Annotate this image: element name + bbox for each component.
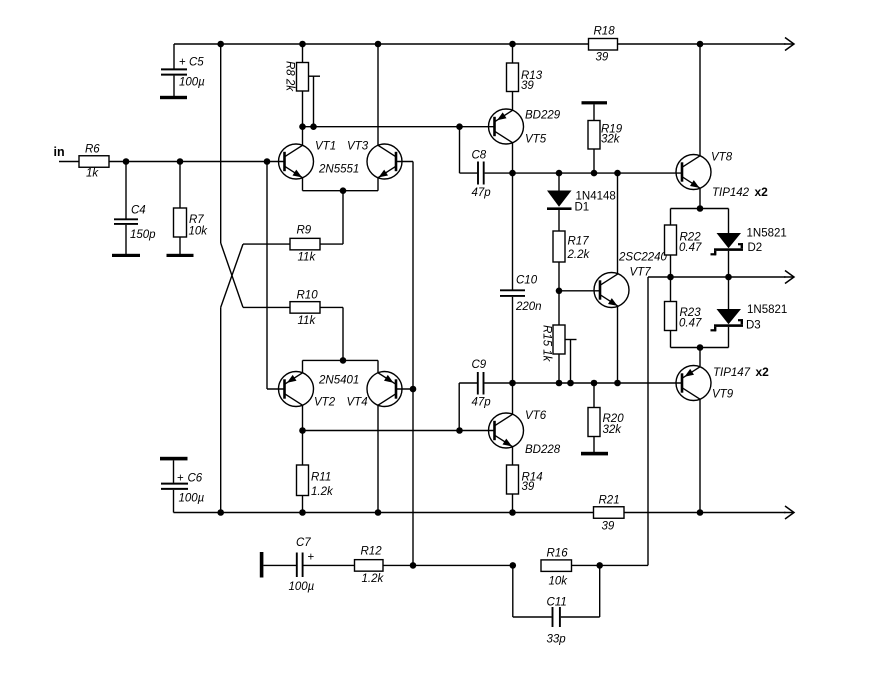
resistor R8 — [284, 44, 309, 127]
wire input line to VT1 base — [109, 161, 285, 163]
svg-text:VT1: VT1 — [315, 141, 336, 153]
node -V/R11 — [299, 509, 306, 516]
svg-text:1.2k: 1.2k — [311, 486, 334, 498]
wire VT6 bottom — [512, 447, 514, 466]
svg-text:39: 39 — [596, 52, 609, 64]
svg-text:11k: 11k — [298, 252, 317, 264]
svg-text:47p: 47p — [472, 397, 492, 409]
svg-text:1k: 1k — [86, 168, 99, 180]
resistor R12 — [355, 546, 513, 586]
capacitor C8 — [460, 127, 513, 199]
svg-text:32k: 32k — [601, 134, 621, 146]
resistor R17 — [553, 231, 590, 291]
node VT1/VT3 emitters — [340, 187, 347, 194]
node output/R22 — [667, 274, 674, 281]
node bias/VT7 emitter — [614, 380, 621, 387]
wire cross diagonal from R9 — [221, 244, 243, 307]
resistor R15 — [541, 291, 566, 383]
resistor R10 — [243, 290, 343, 328]
svg-text:BD228: BD228 — [525, 444, 561, 456]
svg-text:10k: 10k — [189, 226, 209, 238]
svg-text:D2: D2 — [748, 242, 763, 254]
transistor VT8 — [676, 152, 768, 200]
svg-text:C11: C11 — [547, 597, 567, 609]
node line173 / D1 — [556, 170, 563, 177]
wire VT8 collector — [699, 44, 701, 157]
wire VT2 base branch — [267, 162, 285, 390]
wire VT4 collector to -V — [377, 405, 379, 513]
ground R20 — [581, 452, 608, 456]
svg-text:C4: C4 — [131, 205, 146, 217]
wire R10 to VT2/VT4 emitters — [342, 307, 344, 360]
wire VT7 emitter — [617, 306, 619, 384]
svg-text:100µ: 100µ — [179, 77, 205, 89]
wire VT9 emitter — [699, 348, 701, 367]
svg-text:11k: 11k — [298, 315, 317, 327]
svg-text:C6: C6 — [188, 473, 203, 485]
wire VT1 collector — [302, 127, 304, 146]
wire +V top rail (right segment) — [618, 43, 786, 45]
resistor R13 — [507, 44, 543, 111]
svg-text:39: 39 — [602, 521, 615, 533]
svg-text:x2: x2 — [756, 365, 770, 379]
resistor R23 — [665, 277, 702, 348]
wire R23/D3 join — [671, 347, 729, 349]
ground R7 — [167, 254, 194, 257]
wire VT3 base — [396, 161, 413, 163]
node VT8 emitter — [697, 205, 704, 212]
svg-text:C10: C10 — [516, 275, 538, 287]
wire VT3/VT4 base line x=413 — [412, 162, 414, 566]
svg-text:R12: R12 — [361, 546, 383, 558]
svg-text:220n: 220n — [515, 301, 542, 313]
svg-text:BD229: BD229 — [525, 110, 561, 122]
wire VT1 emitter — [302, 178, 304, 191]
capacitor C5 — [161, 44, 205, 96]
svg-text:39: 39 — [522, 481, 535, 493]
svg-text:C9: C9 — [472, 359, 487, 371]
resistor R16 — [541, 548, 648, 588]
svg-text:1N5821: 1N5821 — [747, 304, 787, 316]
capacitor C4 — [114, 162, 156, 255]
transistor VT5 — [489, 109, 561, 146]
svg-text:VT5: VT5 — [525, 134, 547, 146]
wire VT3 emitter — [377, 178, 379, 191]
resistor R21 — [594, 495, 625, 533]
svg-text:R18: R18 — [594, 26, 616, 38]
node VT5 emitter / C8 / C10 — [509, 170, 516, 177]
wire VT4 base — [396, 388, 413, 390]
resistor R22 — [665, 209, 702, 278]
capacitor C10 — [500, 173, 542, 383]
wire VT4 emitter — [377, 360, 379, 373]
wire cross diagonal to R10 — [221, 243, 243, 307]
capacitor C7 — [263, 537, 354, 593]
node bias/VT6 top — [509, 380, 516, 387]
input terminal C7 — [260, 552, 264, 578]
node bias/R20 — [591, 380, 598, 387]
capacitor C6 — [161, 460, 205, 512]
resistor R6 — [79, 144, 109, 180]
transistor VT3 — [347, 141, 402, 180]
node R17 / VT7 base / R15 — [556, 288, 563, 295]
svg-text:10k: 10k — [549, 576, 569, 588]
node bias/R15 — [556, 380, 563, 387]
resistor R7 — [174, 162, 209, 255]
resistor R9 — [243, 225, 343, 264]
svg-text:VT3: VT3 — [347, 141, 369, 153]
power bar R19 — [582, 101, 608, 104]
-V rail output arrow — [784, 506, 794, 519]
diode D3 — [711, 277, 788, 348]
node line173 / VT7 collector — [614, 170, 621, 177]
svg-text:in: in — [54, 145, 65, 159]
node top rail / R8 — [299, 41, 306, 48]
svg-text:VT8: VT8 — [711, 152, 733, 164]
wire VT2 collector — [302, 405, 304, 431]
node R16 right / C11 — [596, 562, 603, 569]
svg-text:C8: C8 — [472, 150, 487, 162]
node top rail / VT8 collector — [697, 41, 704, 48]
svg-text:VT7: VT7 — [630, 267, 652, 279]
wire VT6 top — [512, 383, 514, 415]
node top rail / R13 — [509, 41, 516, 48]
resistor R18 — [589, 26, 618, 64]
node -V/VT9 collector — [697, 509, 704, 516]
svg-text:R6: R6 — [85, 144, 100, 156]
svg-text:R16: R16 — [547, 548, 569, 560]
node VT4 base / x413 — [410, 386, 417, 393]
node VT2/VT4 emitters — [340, 357, 347, 364]
svg-text:VT9: VT9 — [712, 389, 734, 401]
svg-text:100µ: 100µ — [289, 581, 315, 593]
transistor VT6 — [489, 410, 561, 456]
svg-text:VT2: VT2 — [314, 397, 336, 409]
wire +V top rail (left segment) — [174, 43, 589, 45]
diode D2 — [711, 209, 787, 278]
svg-text:2SC2240: 2SC2240 — [618, 252, 668, 264]
wire VT8 emitter branch — [671, 208, 729, 210]
svg-text:x2: x2 — [755, 185, 769, 199]
wire VT7 collector — [617, 173, 619, 274]
+V rail output arrow — [784, 38, 794, 51]
svg-text:+: + — [177, 473, 184, 485]
wire VT9 collector — [699, 400, 701, 513]
wire R15 tap — [565, 340, 577, 384]
node VT2 collector / R11 — [299, 427, 306, 434]
wire bias line to VT9 base — [513, 382, 683, 384]
svg-text:R10: R10 — [297, 290, 319, 302]
svg-text:2N5401: 2N5401 — [318, 374, 359, 386]
node R8/VT1 collector — [299, 123, 306, 130]
wire -V bottom rail (left segment) — [174, 512, 594, 514]
svg-text:+: + — [308, 552, 315, 564]
node bias/R15 tap — [567, 380, 574, 387]
svg-text:0.47: 0.47 — [679, 318, 702, 330]
node input/R7 — [177, 158, 184, 165]
ground C6 — [160, 457, 188, 461]
diode D1 — [547, 173, 616, 231]
svg-text:D1: D1 — [575, 202, 590, 214]
wire R8 tap — [309, 76, 321, 127]
svg-text:VT6: VT6 — [525, 410, 547, 422]
wire cross to -V rail (lower x=220.7) — [220, 307, 222, 512]
ground C5 — [160, 96, 187, 99]
wire VT8 emitter — [699, 188, 701, 209]
output rail arrow — [784, 271, 794, 284]
svg-text:TIP147: TIP147 — [713, 367, 751, 379]
transistor VT9 — [676, 365, 769, 401]
svg-text:2N5551: 2N5551 — [318, 164, 359, 176]
svg-text:C7: C7 — [296, 537, 311, 549]
resistor R11 — [297, 431, 334, 513]
resistor R20 — [588, 383, 624, 452]
svg-text:33p: 33p — [547, 634, 567, 646]
svg-text:150p: 150p — [130, 229, 156, 241]
svg-text:1N5821: 1N5821 — [747, 228, 787, 240]
wire VT2 collector to VT6 base — [303, 430, 495, 432]
svg-text:R17: R17 — [568, 236, 590, 248]
svg-text:R9: R9 — [297, 225, 312, 237]
resistor R19 — [588, 104, 623, 173]
node -V/R14 — [509, 509, 516, 516]
svg-text:VT4: VT4 — [347, 397, 368, 409]
node -V/cross column — [217, 509, 224, 516]
node VT9 emitter — [697, 344, 704, 351]
wire bias line left — [459, 382, 477, 384]
node R16 left / C11 — [510, 562, 517, 569]
node input/C4 — [123, 158, 130, 165]
svg-text:C5: C5 — [189, 57, 204, 69]
wire emitters to R9 — [342, 191, 344, 244]
wire VT1/VT3 emitter join — [303, 190, 379, 192]
node output/D2 — [725, 274, 732, 281]
wire VT1 collector to VT5 base — [303, 126, 495, 128]
svg-text:R8 2k: R8 2k — [284, 61, 296, 92]
svg-text:1.2k: 1.2k — [362, 573, 385, 585]
transistor VT4 — [347, 372, 403, 409]
capacitor C11 — [513, 565, 600, 645]
node line173 / R19 — [591, 170, 598, 177]
svg-text:47p: 47p — [472, 187, 492, 199]
ground C4 — [112, 254, 140, 257]
wire VT2 emitter — [302, 360, 304, 373]
node VT5 base / C8 — [456, 123, 463, 130]
node label in — [54, 145, 65, 159]
capacitor C9 — [459, 359, 512, 431]
node input/VT2-base branch — [264, 158, 271, 165]
transistor VT7 — [594, 252, 668, 308]
wire -V bottom rail (right segment) — [624, 512, 786, 514]
node -V/VT4 collector — [375, 509, 382, 516]
svg-text:2.2k: 2.2k — [567, 249, 591, 261]
node top rail / VT3 collector — [375, 41, 382, 48]
wire VT3 collector to +V — [377, 44, 379, 146]
resistor R14 — [507, 465, 543, 513]
wire VT5 emitter line to VT8 base — [513, 172, 683, 174]
wire input — [59, 161, 79, 163]
svg-text:R11: R11 — [311, 472, 331, 484]
node R8 tap — [310, 123, 317, 130]
transistor VT2 — [279, 372, 360, 409]
wire VT2/VT4 emitter join — [303, 359, 379, 361]
wire feedback from output — [647, 277, 649, 565]
svg-text:R7: R7 — [189, 214, 204, 226]
svg-text:39: 39 — [521, 80, 534, 92]
wire VT5 emitter — [512, 143, 514, 173]
svg-text:32k: 32k — [603, 424, 623, 436]
svg-text:TIP142: TIP142 — [712, 187, 750, 199]
svg-text:+: + — [179, 57, 186, 69]
node C9/VT6 base — [456, 427, 463, 434]
transistor VT1 — [279, 141, 360, 180]
svg-text:R15 1k: R15 1k — [541, 325, 553, 363]
wire +V to cross (upper x=220.7) — [220, 44, 222, 243]
wire output rail — [648, 276, 786, 278]
node R12/x413 — [410, 562, 417, 569]
wire VT7 base — [559, 290, 600, 292]
node top rail / C5 column — [217, 41, 224, 48]
svg-text:R21: R21 — [599, 495, 620, 507]
svg-text:D3: D3 — [746, 320, 761, 332]
svg-text:0.47: 0.47 — [679, 242, 702, 254]
svg-text:100µ: 100µ — [179, 493, 205, 505]
